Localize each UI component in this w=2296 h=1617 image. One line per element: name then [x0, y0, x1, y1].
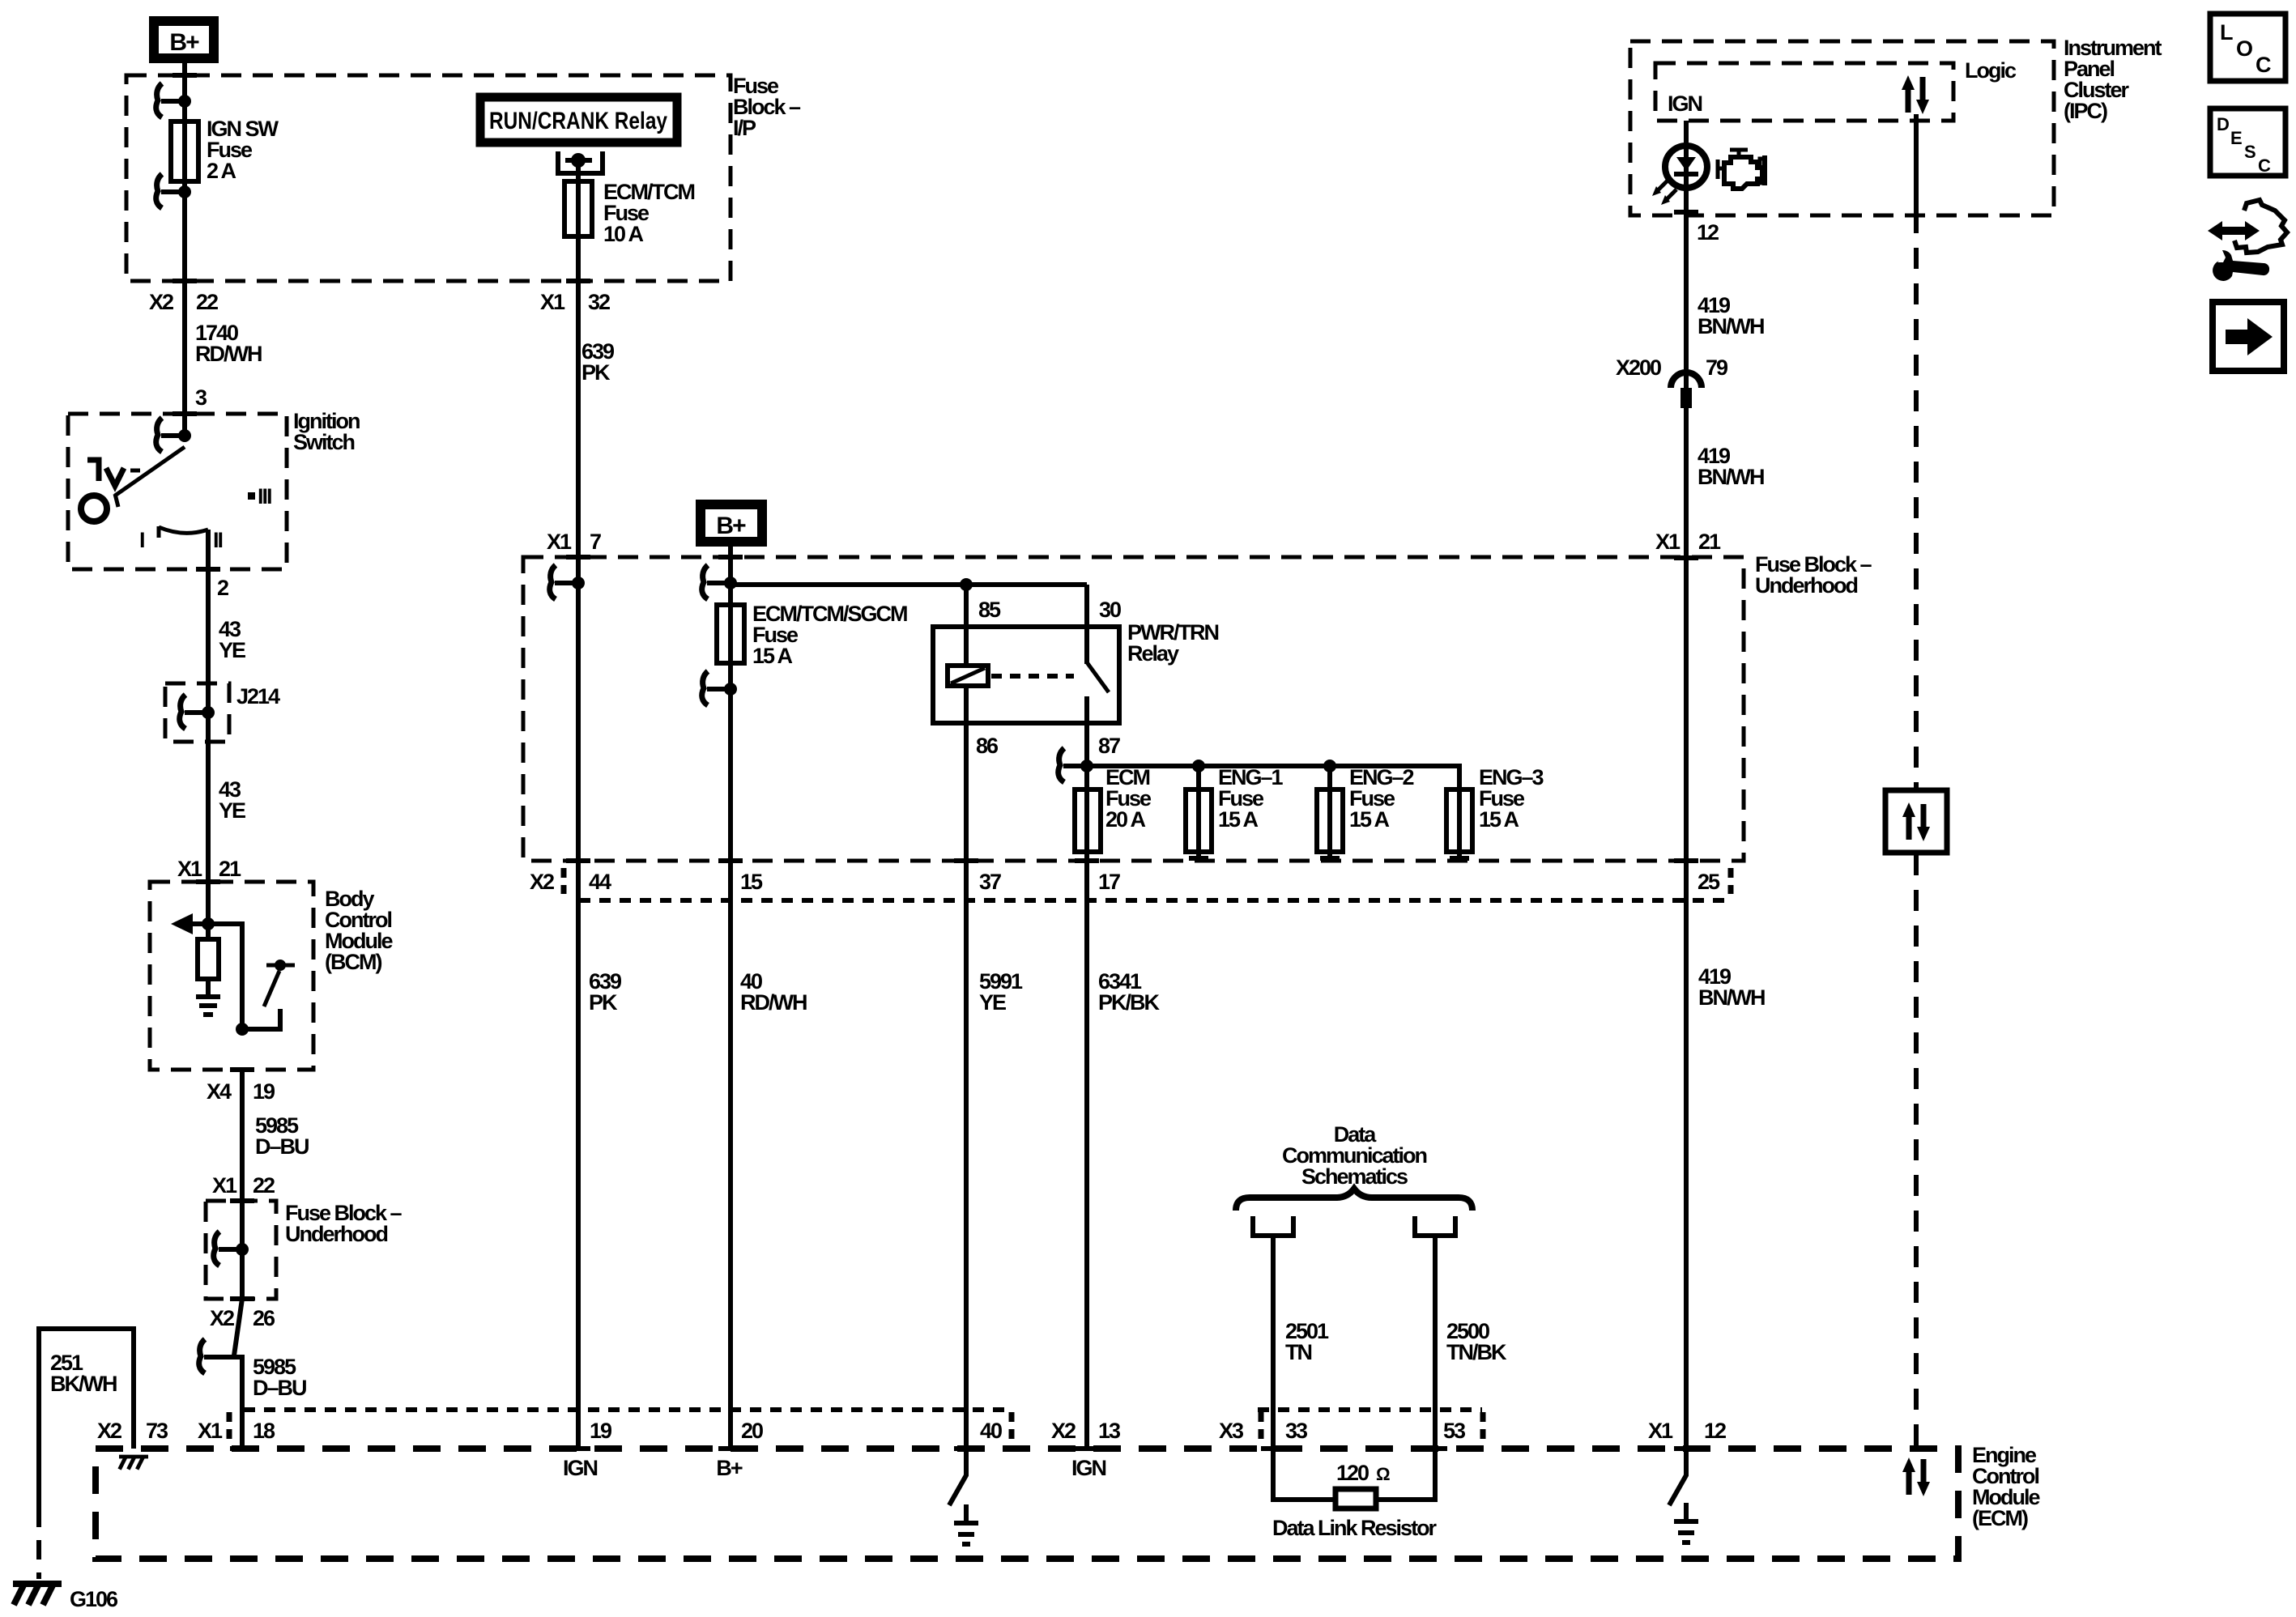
wire label 419 BN/WH middle — [1698, 444, 1764, 489]
wire label 5991 YE — [979, 969, 1023, 1015]
data link right connector cup — [1415, 1216, 1455, 1236]
pin labels X1 32 — [540, 290, 610, 314]
svg-text:IGN: IGN — [1071, 1456, 1106, 1480]
wire label 2500 TN/BK — [1446, 1319, 1507, 1364]
clip terminal below IGN SW fuse — [156, 174, 191, 208]
svg-text:32: 32 — [588, 290, 610, 314]
pin labels X2 22 — [149, 290, 218, 314]
wire 2501 TN — [1273, 1236, 1335, 1500]
contact arc I-II — [159, 526, 208, 538]
pin labels X1 18 — [198, 1419, 275, 1443]
clip on pin 87 wire — [1059, 748, 1093, 782]
svg-text:S: S — [2244, 142, 2256, 162]
svg-text:X1: X1 — [212, 1173, 237, 1198]
wire 5991 YE pin 37 to ECM pin 40 — [964, 861, 969, 1449]
svg-text:30: 30 — [1099, 598, 1121, 622]
svg-text:44: 44 — [589, 870, 611, 894]
svg-text:21: 21 — [219, 857, 241, 881]
fuse IGN SW Fuse 2 A — [171, 117, 279, 183]
updown arrows in logic box — [1902, 75, 1929, 114]
svg-text:RUN/CRANK Relay: RUN/CRANK Relay — [489, 108, 667, 134]
svg-text:III: III — [258, 484, 271, 509]
svg-text:26: 26 — [253, 1306, 275, 1330]
relay switch lower contact wire — [1084, 696, 1089, 723]
ignition key cylinder symbol — [81, 460, 140, 521]
check engine icon — [1718, 150, 1765, 189]
BCM internal wire junction and arrow — [171, 913, 242, 1029]
svg-text:Switch: Switch — [293, 430, 355, 454]
power feed B+ (battery) box top-left — [154, 21, 214, 58]
ground G106 — [13, 1584, 118, 1611]
pin labels X1 7 — [547, 530, 601, 554]
RUN/CRANK Relay label box — [480, 97, 677, 143]
pin labels X2 13 — [1051, 1419, 1121, 1443]
tick at BCM bottom — [230, 1067, 254, 1072]
svg-text:12: 12 — [1697, 220, 1719, 245]
svg-text:BK/WH: BK/WH — [50, 1372, 117, 1396]
fuse ENG-1 Fuse 15 A — [1186, 765, 1284, 858]
Logic dashed box — [1655, 63, 1953, 121]
pin labels X1 22 — [212, 1173, 275, 1198]
icon box LOC — [2210, 14, 2285, 81]
svg-text:(IPC): (IPC) — [2064, 99, 2107, 123]
pin labels X2 73 — [97, 1419, 168, 1443]
wire label 43 YE lower — [219, 777, 245, 823]
svg-text:PK: PK — [581, 360, 611, 385]
svg-text:15 A: 15 A — [1479, 807, 1519, 832]
svg-text:BN/WH: BN/WH — [1698, 465, 1764, 489]
svg-text:RD/WH: RD/WH — [195, 342, 262, 366]
ground wire 251 BK/WH from ECM X2 73 — [39, 1329, 134, 1579]
serial data boxed updown arrows — [1885, 790, 1947, 853]
clip below SGCM fuse — [702, 671, 737, 705]
wire label 639 PK lower — [589, 969, 622, 1015]
svg-text:21: 21 — [1698, 530, 1721, 554]
svg-text:D: D — [2217, 114, 2229, 134]
svg-text:X1: X1 — [177, 857, 202, 881]
svg-text:IGN: IGN — [563, 1456, 598, 1480]
svg-text:YE: YE — [219, 798, 245, 823]
wire label 2501 TN — [1285, 1319, 1329, 1364]
Fuse Block - Underhood large dashed box — [523, 557, 1744, 861]
Fuse Block - I/P label — [733, 74, 801, 140]
chassis ground at ECM pin 73 — [119, 1457, 148, 1470]
wire 40 RD/WH down to ECM pin 20 — [728, 689, 733, 1449]
svg-text:7: 7 — [590, 530, 601, 554]
relay output terminal cup with dot — [558, 151, 603, 173]
tick at BCM top — [196, 879, 220, 884]
clip inside small fuse block — [214, 1232, 249, 1266]
wire IGN to LED indicator — [1684, 121, 1689, 1449]
svg-text:B+: B+ — [716, 513, 746, 539]
svg-text:BN/WH: BN/WH — [1698, 314, 1764, 338]
wire label 40 RD/WH — [740, 969, 807, 1015]
position III mark — [248, 484, 271, 509]
wire label 419 BN/WH lower — [1698, 964, 1765, 1010]
wire from B+ through IGN SW fuse to ignition switch — [182, 63, 187, 436]
svg-text:YE: YE — [979, 990, 1006, 1015]
wire label 6341 PK/BK — [1098, 969, 1161, 1015]
power feed B+ box 2 — [701, 504, 762, 542]
tick at ignition box top — [173, 411, 197, 416]
svg-text:BN/WH: BN/WH — [1698, 985, 1765, 1010]
relay actuation dashed link — [991, 674, 1074, 679]
svg-text:YE: YE — [219, 638, 245, 662]
wire 6341 PK/BK pin 17 to ECM X2 13 — [1084, 852, 1089, 1449]
fuse ECM Fuse 20 A — [1075, 765, 1152, 852]
svg-text:(ECM): (ECM) — [1972, 1506, 2028, 1530]
relay coil — [948, 666, 988, 686]
tick at underhood box top wire 639 — [566, 555, 590, 560]
Logic data line dashed down to ECM — [1914, 114, 1919, 1449]
svg-text:85: 85 — [978, 598, 1001, 622]
svg-text:B+: B+ — [716, 1456, 742, 1480]
svg-text:X4: X4 — [207, 1079, 232, 1104]
BCM internal ground — [196, 979, 220, 1015]
svg-text:J214: J214 — [236, 684, 280, 709]
svg-text:G106: G106 — [70, 1587, 118, 1611]
svg-text:12: 12 — [1704, 1419, 1726, 1443]
svg-text:C: C — [2256, 53, 2271, 77]
wire BCM to fuse block underhood — [240, 1070, 245, 1299]
svg-text:D–BU: D–BU — [255, 1134, 309, 1159]
svg-text:X1: X1 — [1655, 530, 1680, 554]
svg-text:X2: X2 — [97, 1419, 121, 1443]
svg-text:Underhood: Underhood — [1755, 573, 1857, 598]
Fuse Block - Underhood small dashed box — [206, 1201, 276, 1299]
Fuse Block - Underhood label right — [1755, 552, 1872, 598]
svg-text:X2: X2 — [149, 290, 173, 314]
brace over data link wires — [1236, 1189, 1472, 1211]
tick at ignition box bottom — [196, 567, 220, 572]
svg-text:I/P: I/P — [733, 116, 756, 140]
svg-text:X2: X2 — [530, 870, 554, 894]
Fuse Block - I/P dashed box — [126, 75, 731, 281]
svg-text:TN/BK: TN/BK — [1446, 1340, 1507, 1364]
clip terminal above IGN SW fuse — [156, 83, 191, 117]
svg-text:40: 40 — [980, 1419, 1002, 1443]
svg-text:X1: X1 — [1648, 1419, 1673, 1443]
svg-text:(BCM): (BCM) — [325, 950, 381, 974]
svg-text:X1: X1 — [547, 530, 572, 554]
svg-text:TN: TN — [1285, 1340, 1311, 1364]
pin labels X4 19 — [207, 1079, 275, 1104]
wire pin 86 to pin 37 — [964, 686, 969, 861]
clip on 639 PK wire inside underhood box — [550, 565, 585, 599]
svg-text:2: 2 — [217, 576, 228, 600]
wire pin 87 down — [1084, 723, 1089, 789]
svg-text:D–BU: D–BU — [253, 1376, 306, 1400]
svg-text:II: II — [213, 528, 223, 552]
svg-text:17: 17 — [1098, 870, 1120, 894]
fuse ECM/TCM/SGCM Fuse 15 A — [717, 585, 907, 689]
svg-text:18: 18 — [253, 1419, 275, 1443]
svg-text:25: 25 — [1698, 870, 1720, 894]
svg-text:37: 37 — [979, 870, 1001, 894]
ECM internal switch to ground pin 12 — [1669, 1449, 1698, 1543]
svg-text:IGN: IGN — [1668, 91, 1702, 116]
wire label 251 BK/WH — [50, 1351, 117, 1396]
PWR/TRN Relay label — [1127, 620, 1218, 666]
Instrument Panel Cluster IPC dashed box — [1630, 41, 2054, 215]
Ignition Switch label — [293, 409, 360, 454]
relay switch blade — [1087, 662, 1109, 692]
wire 639 PK through box to ECM pin 19 — [576, 583, 581, 1449]
Engine Control Module ECM dashed box — [96, 1449, 1958, 1559]
svg-text:2 A: 2 A — [207, 159, 236, 183]
fuse ENG-3 Fuse 15 A — [1446, 765, 1544, 858]
svg-text:X2: X2 — [210, 1306, 234, 1330]
tick at underhood box top wire B+ — [718, 555, 743, 560]
pin 25 label and marker — [1698, 868, 1731, 894]
svg-text:RD/WH: RD/WH — [740, 990, 807, 1015]
Data Communication Schematics label — [1282, 1122, 1427, 1189]
svg-text:13: 13 — [1098, 1419, 1121, 1443]
data link left connector cup — [1253, 1216, 1293, 1236]
svg-text:X2: X2 — [1051, 1419, 1076, 1443]
fuse ENG-2 Fuse 15 A — [1317, 765, 1414, 858]
svg-text:O: O — [2236, 36, 2252, 61]
relay switch pin 30 wire — [1084, 585, 1089, 664]
svg-text:19: 19 — [590, 1419, 612, 1443]
svg-text:15 A: 15 A — [1218, 807, 1259, 832]
svg-text:X3: X3 — [1219, 1419, 1244, 1443]
ECM internal updown data arrows — [1902, 1457, 1930, 1496]
pin labels X3 33 53 — [1219, 1419, 1466, 1443]
svg-text:Relay: Relay — [1127, 641, 1179, 666]
svg-text:15 A: 15 A — [1349, 807, 1390, 832]
wire label 419 BN/WH top — [1698, 293, 1764, 338]
tick at small box bottom — [230, 1296, 254, 1301]
wire label 43 YE — [219, 617, 245, 662]
wire label 5985 D-BU lower — [253, 1355, 306, 1400]
IPC label — [2064, 36, 2162, 123]
pin labels X2 26 — [210, 1306, 275, 1330]
svg-text:86: 86 — [976, 734, 999, 758]
inline connector X200 pin 79 — [1616, 355, 1728, 408]
tick pin X1/32 at I/P box edge — [566, 279, 590, 283]
svg-text:20 A: 20 A — [1105, 807, 1146, 832]
Body Control Module BCM dashed box — [150, 882, 313, 1070]
LED light arrows — [1652, 181, 1676, 205]
svg-text:X1: X1 — [540, 290, 565, 314]
ECM internal switch to ground pin 40 — [949, 1449, 978, 1544]
PWR/TRN Relay box — [933, 627, 1119, 723]
pin labels X1 21 underhood right — [1655, 530, 1721, 554]
svg-text:79: 79 — [1706, 355, 1728, 380]
tick pin X2/22 at box edge — [173, 279, 197, 283]
wire label 639 PK — [581, 339, 615, 385]
icon box DESC — [2210, 109, 2285, 176]
svg-text:87: 87 — [1098, 734, 1120, 758]
wire jog with pass-through clip below X2 26 — [199, 1299, 242, 1449]
svg-text:C: C — [2258, 155, 2271, 176]
clip on B+ wire inside underhood box — [702, 565, 737, 599]
ignition switch blade — [115, 447, 185, 507]
svg-text:PK/BK: PK/BK — [1098, 990, 1161, 1015]
connector X2 marker at underhood box bottom — [530, 868, 564, 894]
LED indicator lamp — [1665, 146, 1707, 188]
svg-text:Logic: Logic — [1965, 58, 2017, 83]
connector X3 strip short-dash — [1258, 1410, 1483, 1440]
BCM internal switch — [236, 960, 295, 1036]
connector X1 strip short-dash at ECM — [229, 1410, 1012, 1440]
tick at I/P box top wire B+ — [173, 73, 197, 78]
svg-text:10 A: 10 A — [603, 222, 644, 246]
tick at IPC bottom wire — [1674, 210, 1698, 215]
svg-text:3: 3 — [195, 385, 207, 410]
relay coil wire pin 85 — [964, 585, 969, 666]
clip splice inside J214 — [180, 695, 215, 729]
clip terminal pin 3 inside ignition switch — [156, 418, 191, 452]
svg-text:20: 20 — [741, 1419, 763, 1443]
BCM internal resistor element — [198, 924, 219, 979]
Fuse Block - Underhood small label — [285, 1201, 403, 1246]
wire 639 PK down to underhood fuse block — [576, 281, 581, 583]
splice J214 dashed box — [165, 683, 229, 742]
svg-text:Underhood: Underhood — [285, 1222, 387, 1246]
Ignition Switch dashed box — [68, 414, 287, 569]
ticks at ECM top edge pins — [230, 1446, 1698, 1451]
svg-text:B+: B+ — [169, 29, 199, 56]
svg-text:73: 73 — [146, 1419, 168, 1443]
svg-text:19: 19 — [253, 1079, 275, 1104]
bus wire from B+ to relay pins 85 and 30 — [731, 578, 1087, 591]
ECM label — [1972, 1443, 2040, 1530]
ticks at underhood box bottom edge pins — [566, 858, 1698, 863]
svg-text:Data Link Resistor: Data Link Resistor — [1272, 1516, 1438, 1540]
connector strip short-dash line under underhood box — [579, 898, 1729, 903]
svg-text:X1: X1 — [198, 1419, 223, 1443]
svg-text:PK: PK — [589, 990, 618, 1015]
service hand and wrench icon — [2208, 200, 2287, 281]
tick at small box top — [230, 1198, 254, 1203]
wire from switch position II down — [206, 530, 211, 924]
tick at underhood box top wire 419 — [1674, 555, 1698, 560]
wire label 5985 D-BU — [255, 1113, 309, 1159]
svg-text:I: I — [139, 528, 144, 552]
wire label 1740 RD/WH — [195, 321, 262, 366]
icon box arrow — [2213, 302, 2284, 371]
svg-text:53: 53 — [1443, 1419, 1466, 1443]
svg-text:Ω: Ω — [1376, 1464, 1390, 1484]
BCM label — [325, 887, 393, 974]
svg-text:120: 120 — [1336, 1461, 1369, 1485]
pin labels X1 12 — [1648, 1419, 1726, 1443]
svg-text:22: 22 — [196, 290, 218, 314]
wire B+ into underhood box — [728, 547, 733, 583]
svg-text:33: 33 — [1285, 1419, 1308, 1443]
svg-text:15 A: 15 A — [752, 644, 793, 668]
wire 2500 TN/BK — [1376, 1236, 1435, 1500]
svg-text:X200: X200 — [1616, 355, 1661, 380]
data link resistor 120 ohm — [1335, 1461, 1390, 1508]
fused bus wire to ENG fuses — [1087, 760, 1459, 789]
svg-text:E: E — [2230, 128, 2242, 148]
pin labels X1 21 — [177, 857, 241, 881]
fuse ECM/TCM Fuse 10 A — [564, 160, 694, 281]
svg-text:22: 22 — [253, 1173, 275, 1198]
svg-text:L: L — [2220, 20, 2233, 45]
svg-text:15: 15 — [740, 870, 763, 894]
